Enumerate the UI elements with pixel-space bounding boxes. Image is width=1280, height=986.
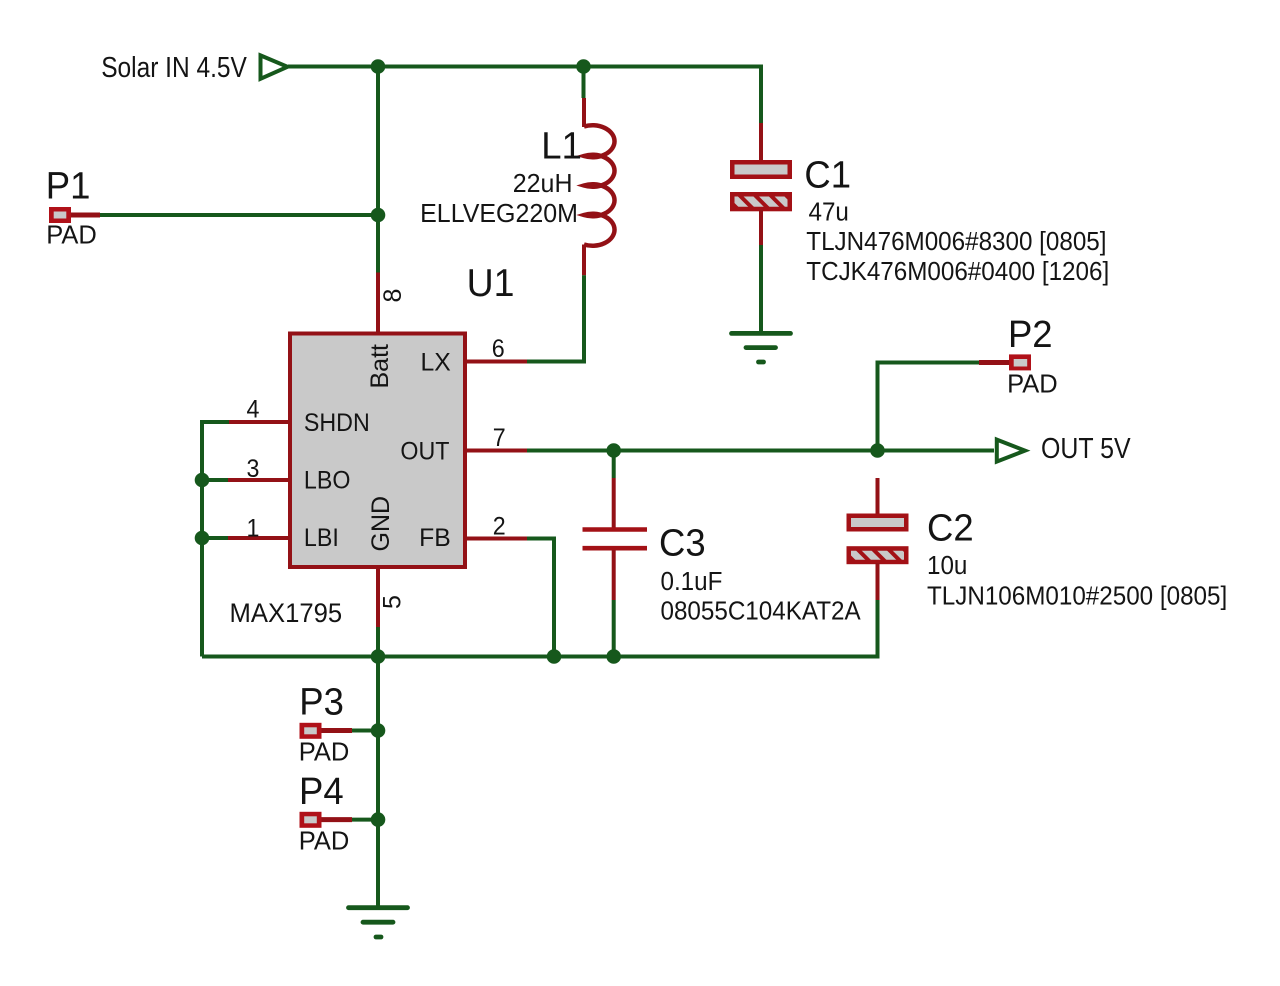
svg-text:3: 3 [247,455,260,483]
svg-text:8: 8 [379,289,407,303]
wire OUT net rail [527,449,994,453]
IC U1 MAX1795 [228,273,527,628]
wire FB net [527,539,554,657]
junction LBO on left drop [195,473,210,488]
svg-text:4: 4 [247,396,260,424]
svg-text:U1: U1 [467,261,515,305]
output port arrow OUT 5V [997,440,1025,462]
pin 7 OUT stub [466,449,527,453]
pad P3 [300,723,353,739]
pin 6 LX stub [466,360,527,364]
wire GND bottom bus [202,600,878,657]
svg-text:PAD: PAD [46,222,97,250]
pin 4 SHDN stub [229,420,289,424]
svg-text:GND: GND [367,496,395,552]
wire OUT riser to P2 [878,363,980,451]
wire P1 net [100,213,378,217]
junction P3 on GND drop [371,723,386,738]
svg-text:PAD: PAD [299,828,350,856]
junction OUT at C3 [606,443,621,458]
svg-text:P4: P4 [299,769,344,812]
svg-text:OUT 5V: OUT 5V [1041,432,1131,464]
junction bus at U1 GND [371,649,386,664]
pad P4 [300,812,353,828]
junction P4 on GND drop [371,812,386,827]
svg-text:MAX1795: MAX1795 [230,597,343,628]
pin 2 FB stub [466,537,527,541]
junction VIN rail at Batt drop [371,59,386,74]
wire LBO jog [202,478,228,482]
wire U1 GND down through P3 P4 to ground [376,627,380,906]
wire LX net to L1 bottom [527,275,584,361]
svg-text:OUT: OUT [400,438,449,466]
svg-text:LX: LX [421,349,452,377]
svg-text:LBO: LBO [304,467,350,495]
junction VIN rail at L1 drop [576,59,591,74]
junction OUT at P2 riser [870,443,885,458]
svg-text:6: 6 [492,335,505,363]
capacitor C2 (polarized) [846,478,912,600]
wire VIN top rail [288,67,761,124]
capacitor C3 [583,478,648,600]
junction LBI on left drop [195,531,210,546]
wire GND left drop from SHDN [202,422,229,657]
svg-text:TLJN106M010#2500 [0805]: TLJN106M010#2500 [0805] [927,582,1227,611]
capacitor C1 (polarized) [730,123,796,245]
svg-text:LBI: LBI [304,524,339,552]
wire C1 to ground [759,245,763,332]
wire VIN to L1 top [582,67,586,99]
svg-text:C1: C1 [804,153,851,196]
svg-text:SHDN: SHDN [304,409,370,437]
wire C3 bottom to bus [612,600,616,657]
ground under C1 [732,333,791,362]
ground bottom [349,908,408,937]
pin 5 GND stub [376,568,380,627]
svg-text:22uH: 22uH [513,170,573,198]
svg-text:PAD: PAD [299,739,350,767]
pad P2 [979,354,1031,370]
svg-text:PAD: PAD [1007,371,1058,399]
svg-text:2: 2 [493,513,506,541]
svg-text:ELLVEG220M: ELLVEG220M [420,200,578,228]
pin 3 LBO stub [228,478,289,482]
svg-text:1: 1 [247,515,260,543]
svg-text:10u: 10u [927,551,967,580]
wire OUT to C3 [612,451,616,479]
svg-text:C2: C2 [927,506,974,549]
pin 1 LBI stub [228,536,289,540]
svg-text:47u: 47u [809,198,849,227]
svg-text:0.1uF: 0.1uF [661,567,723,596]
junction bus at C3 [606,649,621,664]
svg-text:08055C104KAT2A: 08055C104KAT2A [661,597,862,626]
junction P1 net on Batt drop [371,208,386,223]
input port arrow Solar IN [261,55,288,78]
svg-text:Solar IN 4.5V: Solar IN 4.5V [101,51,247,83]
wire P3 to GND drop [352,729,378,733]
wire LBI jog [202,536,228,540]
svg-text:7: 7 [493,424,506,452]
wire P4 to GND drop [352,818,378,822]
svg-text:FB: FB [419,524,451,552]
svg-text:C3: C3 [659,521,706,564]
svg-text:P2: P2 [1008,312,1053,355]
svg-text:TCJK476M006#0400 [1206]: TCJK476M006#0400 [1206] [806,257,1109,286]
junction bus at FB [547,649,562,664]
pin 8 Batt stub [376,273,380,333]
svg-text:P3: P3 [299,680,344,723]
wire VIN to U1 Batt [376,67,380,273]
svg-text:TLJN476M006#8300 [0805]: TLJN476M006#8300 [0805] [806,227,1106,256]
svg-text:5: 5 [379,595,407,609]
pad P1 [49,207,100,223]
svg-text:P1: P1 [46,164,91,207]
inductor L1 [584,98,615,275]
svg-text:Batt: Batt [366,344,394,389]
svg-text:L1: L1 [541,124,582,167]
